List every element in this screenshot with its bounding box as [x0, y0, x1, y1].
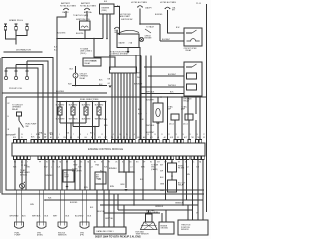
label injector J4 top — [95, 105, 104, 107]
label blk/yel — [76, 33, 84, 35]
wire spark plug leads — [6, 30, 28, 44]
caption text — [95, 236, 141, 239]
svg-text:E02: E02 — [90, 133, 93, 135]
label top extra row — [104, 1, 180, 29]
label blk/red — [56, 91, 65, 93]
svg-text:WHT/BLK: WHT/BLK — [32, 216, 41, 218]
svg-text:27: 27 — [203, 134, 205, 136]
resistor R1 — [17, 112, 22, 121]
svg-text:PUMP: PUMP — [15, 235, 21, 237]
svg-text:BLK/WHT: BLK/WHT — [134, 84, 143, 86]
label battery 1 — [60, 2, 77, 7]
label ignition coil — [76, 19, 91, 21]
svg-text:WHT/BLK: WHT/BLK — [69, 119, 79, 121]
wire dlc2 pin — [127, 48, 130, 54]
svg-text:(CALIF): (CALIF) — [151, 168, 158, 171]
label connector C3 wires — [53, 216, 70, 218]
wire k2 outputs down — [188, 96, 196, 120]
wire coil lead to distributor — [15, 39, 17, 45]
svg-text:TEMP SENSOR: TEMP SENSOR — [136, 234, 150, 236]
label distributor — [16, 50, 31, 52]
junction right bus — [160, 96, 183, 98]
label circuit opening relay — [80, 74, 89, 80]
label hot at all times right — [131, 1, 148, 4]
svg-text:SENSOR: SENSOR — [58, 235, 67, 237]
wire injector J1 feed — [66, 101, 68, 139]
wire relay stem — [70, 66, 76, 73]
svg-text:E1: E1 — [70, 137, 72, 139]
svg-text:FP: FP — [39, 162, 41, 164]
label to a/c amp 2 — [181, 106, 188, 111]
junction mid bus — [118, 171, 135, 173]
svg-text:TO A/T ECU (A/T): TO A/T ECU (A/T) — [73, 14, 89, 17]
egr gas temp sensor box — [136, 231, 150, 236]
svg-text:5: 5 — [59, 134, 60, 136]
data link connector 1 box — [94, 227, 126, 234]
wire right frame — [206, 4, 208, 212]
wire connector C3 leads — [60, 190, 64, 222]
label blk/org — [57, 33, 66, 35]
svg-text:15A EFI: 15A EFI — [62, 11, 69, 14]
wire connector C2 leads — [39, 190, 43, 222]
label injector J1 top — [56, 105, 65, 107]
svg-text:(W/ A/C): (W/ A/C) — [20, 173, 27, 176]
svg-text:PICKUP COIL: PICKUP COIL — [9, 88, 23, 90]
svg-text:BLK/RED: BLK/RED — [56, 105, 65, 107]
svg-text:16: 16 — [133, 134, 135, 136]
igniter U1 — [100, 4, 115, 14]
svg-text:G-W: G-W — [78, 167, 82, 169]
egr gas temp sensor cone — [141, 214, 158, 230]
label relay K1 — [184, 48, 198, 52]
label grn/blk bottom — [175, 203, 199, 215]
svg-text:BLK/RED: BLK/RED — [95, 105, 104, 107]
label injector J2 top — [69, 105, 78, 107]
wire injector bus top — [56, 92, 105, 102]
svg-text:4: 4 — [52, 134, 53, 136]
svg-text:+B: +B — [157, 137, 159, 139]
svg-text:HOT AT ALL TIMES: HOT AT ALL TIMES — [60, 4, 77, 7]
svg-text:ENGINE CONTROL MODULE: ENGINE CONTROL MODULE — [88, 147, 123, 151]
svg-text:E2: E2 — [150, 162, 152, 164]
svg-text:G1: G1 — [108, 83, 110, 85]
svg-text:#20: #20 — [63, 137, 66, 139]
relay K2 box — [184, 62, 202, 96]
connector C4 — [80, 222, 89, 228]
distributor terminal 1 — [4, 71, 7, 80]
label connector C4 wires — [75, 216, 92, 218]
label blk red stack — [138, 109, 143, 116]
ground G2 — [66, 184, 69, 188]
wire connector C4 leads — [82, 190, 86, 222]
noise filter box — [168, 163, 185, 172]
injector J3 — [84, 102, 88, 124]
wire connector drops to ECM — [112, 67, 133, 139]
wire distributor signal 2 — [27, 61, 48, 139]
engine ground box — [159, 222, 174, 234]
wire injector ground bus 2 — [73, 126, 99, 139]
svg-text:BLK/WHT: BLK/WHT — [162, 39, 171, 41]
svg-text:TO TACH: TO TACH — [146, 26, 155, 29]
svg-text:RELAY: RELAY — [178, 184, 185, 187]
wire ign sw to relay — [140, 24, 160, 47]
label engine control module — [88, 147, 123, 151]
label ne g1 g2 — [108, 79, 112, 88]
relay K1 box — [184, 28, 202, 46]
svg-text:8: 8 — [80, 134, 81, 136]
svg-text:BLK/RED: BLK/RED — [70, 202, 78, 204]
wire battery feed left — [57, 11, 66, 38]
label injector J4 bot — [95, 119, 105, 121]
label to A/T electronic control — [109, 50, 141, 55]
injector J2 — [71, 102, 75, 127]
svg-text:B-W: B-W — [115, 30, 119, 32]
svg-text:GRN/BLK: GRN/BLK — [155, 206, 164, 208]
label hot at all times far right — [160, 1, 177, 4]
label drops bundle stack — [99, 73, 142, 87]
wire tach branch — [145, 26, 155, 34]
a/c cut relay box — [168, 180, 187, 192]
label sta w labels — [36, 133, 54, 136]
junction bus x94 — [93, 38, 95, 40]
svg-text:#30: #30 — [77, 137, 80, 139]
svg-text:HT: HT — [108, 162, 110, 164]
wire bus riser x94 — [94, 39, 115, 68]
svg-text:WHT/BLK: WHT/BLK — [146, 92, 155, 94]
label bottom area extra — [30, 198, 94, 210]
wire bus y85 — [72, 85, 107, 87]
circuit opening relay coil — [73, 73, 78, 78]
label clutch wires — [146, 92, 155, 135]
svg-text:11: 11 — [94, 134, 96, 136]
svg-text:#40: #40 — [84, 137, 87, 139]
wire relay K2 feed 1 — [144, 66, 184, 68]
svg-text:ENGINE: ENGINE — [145, 38, 153, 40]
svg-text:SW: SW — [26, 126, 29, 128]
wire bus y205 — [100, 204, 198, 206]
label injector J3 top — [82, 105, 91, 107]
a/c magnetic clutch M1 — [153, 103, 163, 122]
svg-text:TEMP (CALIF): TEMP (CALIF) — [146, 211, 158, 214]
svg-text:TE1: TE1 — [191, 137, 194, 139]
svg-text:2: 2 — [38, 134, 39, 136]
svg-text:HOT AT ALL TIMES: HOT AT ALL TIMES — [160, 1, 177, 4]
label connector C4 — [80, 232, 85, 236]
wire injector J4 feed — [105, 101, 107, 139]
junction box region — [117, 34, 139, 48]
switch SW1 arc — [117, 30, 139, 34]
svg-text:DLC1: DLC1 — [169, 124, 174, 126]
svg-text:IGNITION SW: IGNITION SW — [121, 19, 133, 21]
ECM bottom pin row — [14, 156, 205, 160]
svg-text:BLU/YEL: BLU/YEL — [98, 211, 106, 213]
label to A/T ECU — [73, 14, 89, 17]
svg-text:22: 22 — [168, 134, 170, 136]
ECM top pin row — [14, 140, 202, 144]
svg-text:GRN/YEL: GRN/YEL — [105, 218, 113, 220]
svg-text:L: L — [51, 167, 52, 169]
svg-text:10: 10 — [14, 134, 16, 136]
label row above ecm pins 2 — [14, 134, 205, 136]
svg-text:(2WD): (2WD) — [102, 10, 108, 12]
svg-text:15: 15 — [126, 134, 128, 136]
label blu/yel — [98, 211, 114, 220]
injector J1 — [58, 102, 62, 124]
svg-text:RELAY: RELAY — [12, 108, 19, 111]
integration relay box — [83, 58, 101, 66]
svg-text:G2: G2 — [123, 137, 125, 139]
svg-text:GRN/RED: GRN/RED — [45, 175, 54, 177]
text to a/c block 2 — [72, 168, 82, 173]
wire dlc1 drops — [97, 190, 124, 227]
svg-text:26: 26 — [196, 134, 198, 136]
svg-text:RELAY: RELAY — [85, 62, 92, 65]
wire bus y200 — [44, 190, 203, 201]
svg-text:HOT AT ALL TIMES: HOT AT ALL TIMES — [80, 4, 97, 7]
svg-text:6: 6 — [66, 134, 67, 136]
wire x57 riser — [57, 39, 83, 140]
svg-text:TE2: TE2 — [197, 137, 200, 139]
engine coolant temp sensor — [63, 170, 74, 182]
fuse F4 — [114, 27, 120, 34]
label connector C2 wires — [32, 216, 49, 218]
wire distributor signal 1 — [2, 58, 53, 140]
svg-text:12: 12 — [101, 134, 103, 136]
svg-text:(TDCL): (TDCL) — [80, 53, 87, 55]
label to a/c amp 1 — [167, 106, 174, 111]
wire distributor signal 4 — [6, 68, 38, 139]
svg-text:IGF: IGF — [137, 137, 140, 139]
label pickup coil — [9, 88, 23, 90]
spark plug 3 — [26, 24, 29, 30]
ECM pin labels above — [13, 136, 205, 139]
dlc1 connector B — [183, 114, 193, 139]
svg-text:B/W: B/W — [13, 137, 17, 139]
svg-text:22-14: 22-14 — [196, 3, 201, 5]
intake air temp sensor — [95, 172, 106, 184]
wire at drops — [136, 55, 151, 139]
distributor terminal 3 — [25, 71, 28, 80]
svg-text:BLK/RED: BLK/RED — [69, 105, 78, 107]
label fuel injectors — [80, 99, 99, 101]
wire relay K2 feed 2 — [148, 74, 184, 76]
wire drop x95b — [94, 184, 96, 190]
ECM pin labels below — [14, 161, 202, 164]
label egr sensor calif — [146, 209, 158, 214]
wire relay K2 feed 4 — [141, 91, 184, 93]
svg-text:BLK/WHT: BLK/WHT — [146, 100, 155, 102]
label fuel pump sw — [26, 124, 37, 128]
svg-text:BRN/BLK: BRN/BLK — [109, 168, 118, 170]
label text block left — [12, 105, 24, 111]
connector C2 — [37, 222, 46, 228]
svg-text:B-W: B-W — [176, 27, 180, 29]
svg-text:DATA LINK CONN 1: DATA LINK CONN 1 — [97, 230, 114, 233]
svg-text:RELAY: RELAY — [184, 100, 191, 103]
label connector C1 wires — [10, 216, 27, 218]
svg-text:DLC1: DLC1 — [183, 124, 188, 126]
svg-text:WHT/BLK: WHT/BLK — [95, 119, 105, 121]
wire coil output — [84, 30, 86, 39]
svg-text:G-W: G-W — [140, 119, 144, 121]
svg-text:IGNITION COIL: IGNITION COIL — [76, 19, 91, 21]
wire merge to ground — [121, 172, 127, 188]
wire right drops below ecm — [166, 160, 184, 206]
label w-b right mid — [156, 123, 160, 125]
svg-text:BLK/WHT: BLK/WHT — [168, 74, 177, 76]
junction at drop — [140, 66, 152, 94]
wire fuse F3 down — [139, 8, 141, 24]
label battery 2 — [80, 2, 97, 7]
wire relay out — [75, 78, 77, 86]
svg-text:GROUND: GROUND — [161, 228, 169, 230]
wire k2 down left — [147, 87, 149, 97]
fuse F2 — [84, 8, 92, 14]
label to egr block — [151, 165, 159, 171]
svg-text:TW: TW — [52, 162, 55, 164]
distributor connector strip — [110, 67, 137, 73]
svg-text:13: 13 — [112, 134, 114, 136]
label injector J1 bot — [56, 119, 66, 121]
wire bus y93 — [2, 92, 107, 94]
svg-text:RELAY: RELAY — [80, 77, 87, 80]
svg-text:GRN: GRN — [160, 184, 165, 186]
svg-text:FUEL INJECTORS: FUEL INJECTORS — [80, 99, 99, 101]
svg-text:BLK/ORG: BLK/ORG — [57, 33, 66, 35]
svg-text:BLU/RED: BLU/RED — [75, 216, 84, 218]
wire ign lamp drop — [139, 47, 141, 139]
wire fuse F5 down — [168, 10, 185, 33]
svg-text:AND START: AND START — [120, 15, 131, 18]
label wire colors below ecm row — [13, 167, 200, 169]
label hot in run — [120, 14, 131, 18]
wire drop x143 — [142, 160, 144, 201]
ground G3 — [125, 189, 128, 191]
injector J4 — [97, 102, 101, 127]
connector C1 — [15, 222, 24, 228]
svg-text:23: 23 — [175, 134, 177, 136]
wire noise filter stems — [171, 160, 173, 181]
svg-text:(EGR): (EGR) — [37, 235, 43, 237]
distributor terminal 2 — [14, 71, 17, 80]
svg-text:VF: VF — [203, 137, 205, 139]
wire clutch stem — [157, 97, 159, 139]
wire engine ground feeds — [162, 205, 168, 222]
svg-text:WHT/RED: WHT/RED — [10, 216, 19, 218]
wire ecm bottom left drops — [15, 160, 62, 191]
label connector C3 — [58, 232, 67, 236]
svg-text:BLK/RED: BLK/RED — [155, 14, 163, 16]
svg-text:T: T — [27, 162, 28, 164]
svg-text:21: 21 — [161, 134, 163, 136]
svg-text:SP: SP — [143, 162, 145, 164]
label to a/c amplifier — [20, 169, 30, 176]
svg-text:50307 1994 TOYOTA PICKUP 2.4L: 50307 1994 TOYOTA PICKUP 2.4L ENG — [95, 236, 141, 239]
svg-text:15A EFI: 15A EFI — [145, 7, 152, 10]
label brn/blk mid — [109, 168, 118, 170]
svg-text:RED: RED — [138, 114, 143, 116]
label x57 bundle — [54, 47, 58, 52]
label w-b brn — [100, 171, 115, 189]
label bottom wires right — [155, 206, 164, 208]
wire far right drops — [193, 160, 204, 211]
label connector C2 — [37, 232, 43, 236]
wire top bus — [56, 38, 103, 40]
svg-text:18: 18 — [147, 134, 149, 136]
svg-text:#10: #10 — [56, 137, 59, 139]
label check engine — [145, 36, 153, 40]
svg-text:RELAY: RELAY — [186, 49, 193, 52]
svg-text:WHT/BLK: WHT/BLK — [168, 85, 177, 87]
wire drop x155 — [154, 160, 156, 191]
svg-text:L: L — [146, 113, 147, 115]
svg-text:19: 19 — [154, 134, 156, 136]
svg-text:VT: VT — [178, 162, 180, 164]
wire bus y210 — [118, 194, 193, 210]
label igniter wire — [92, 32, 119, 63]
wire coil to igniter riser — [102, 28, 104, 39]
svg-text:B-W: B-W — [44, 167, 48, 169]
junction igniter bus — [106, 38, 108, 40]
wire center drops — [67, 160, 90, 191]
svg-text:L-W: L-W — [98, 179, 102, 181]
check engine lamp L1 — [139, 37, 143, 41]
wire connector C1 leads — [17, 190, 21, 222]
ECM engine control module box — [12, 143, 205, 156]
svg-text:RED: RED — [137, 73, 142, 75]
label mid right extras — [104, 113, 147, 127]
spark plug 1 — [4, 24, 7, 30]
label left edge extras — [8, 103, 11, 131]
wire relay K1 feed 2 — [160, 24, 184, 41]
svg-text:(FP): (FP) — [80, 235, 84, 237]
wire injector J2 feed — [79, 101, 81, 139]
svg-text:DISTRIBUTOR: DISTRIBUTOR — [16, 50, 31, 52]
svg-text:BRN: BRN — [110, 186, 115, 188]
svg-text:BLK/WHT: BLK/WHT — [56, 119, 66, 121]
label e01 e02 — [66, 133, 93, 135]
svg-text:IGT: IGT — [157, 162, 160, 164]
switch SW2 — [19, 121, 24, 140]
junction dot blk — [21, 164, 28, 167]
svg-text:17: 17 — [140, 134, 142, 136]
fuse F5 — [165, 7, 176, 12]
connector C3 — [58, 222, 67, 228]
wire injector ground bus 1 — [60, 122, 86, 139]
sensor circle S1 — [20, 182, 25, 189]
svg-text:G1: G1 — [117, 137, 119, 139]
svg-text:WHT/BLK: WHT/BLK — [146, 125, 155, 127]
wire bus y213 — [104, 200, 160, 213]
label brn/wht — [7, 135, 17, 137]
wire drop x134 long — [133, 172, 135, 205]
svg-text:FILTER: FILTER — [178, 168, 185, 170]
label dist signal labels — [31, 132, 53, 139]
wire outer frame left-bottom — [1, 57, 204, 194]
wire mid drops — [103, 160, 134, 191]
dlc1 connector A — [169, 114, 179, 139]
wire injector J3 feed — [92, 101, 94, 139]
label text to a/t ecu block — [80, 48, 92, 55]
svg-text:E2: E2 — [94, 162, 96, 164]
svg-text:+B1: +B1 — [163, 137, 166, 139]
wire egr sensor feeds — [143, 205, 149, 214]
label igt igf column — [160, 165, 165, 193]
wire extra drop right — [186, 160, 188, 201]
wire distributor top edge — [4, 51, 43, 53]
svg-text:3: 3 — [45, 134, 46, 136]
label w-b left — [68, 84, 72, 86]
